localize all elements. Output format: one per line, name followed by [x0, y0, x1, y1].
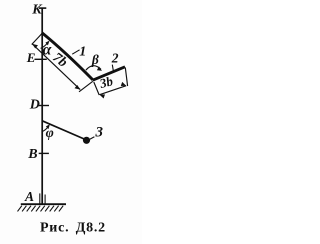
rod 3 (thin rod with ball) [42, 121, 86, 140]
dimension line 3b [100, 86, 127, 95]
extension line at joint [79, 81, 93, 92]
rod 1 leader line [72, 50, 79, 54]
dimension line 7b [32, 44, 80, 90]
svg-text:φ: φ [46, 126, 54, 141]
svg-text:Рис. Д8.2: Рис. Д8.2 [40, 220, 106, 235]
rod 2 (thick bar from joint) [93, 67, 125, 80]
ball leader line [90, 137, 95, 140]
tick E [35, 58, 47, 60]
tick B [39, 152, 49, 154]
angle phi arc [42, 126, 49, 132]
svg-text:3: 3 [95, 124, 104, 140]
svg-text:3b: 3b [97, 73, 115, 91]
ground line [21, 203, 66, 205]
svg-text:2: 2 [111, 51, 119, 66]
ball (point mass) [83, 137, 90, 144]
svg-text:A: A [24, 189, 34, 204]
extension line 3b left [94, 82, 99, 95]
base pin line right [44, 195, 46, 204]
svg-text:α: α [43, 42, 53, 59]
svg-text:1: 1 [79, 45, 86, 60]
extension line 3b right [125, 68, 127, 87]
ground hatching [18, 206, 64, 212]
svg-text:B: B [27, 147, 37, 162]
extension line at rod1 start [32, 34, 42, 45]
angle beta arc [86, 66, 101, 70]
angle alpha arc [41, 42, 49, 48]
svg-text:E: E [26, 50, 36, 65]
base pin line [39, 193, 41, 203]
rod 2 leader line [112, 65, 113, 71]
shaft KA (vertical axis) [41, 8, 43, 204]
tick K (top) [39, 7, 46, 9]
svg-text:D: D [29, 98, 40, 113]
tick D [39, 105, 49, 107]
svg-text:K: K [31, 3, 43, 18]
svg-text:β: β [91, 52, 99, 67]
rod 1 (thick bar from shaft) [42, 33, 93, 80]
